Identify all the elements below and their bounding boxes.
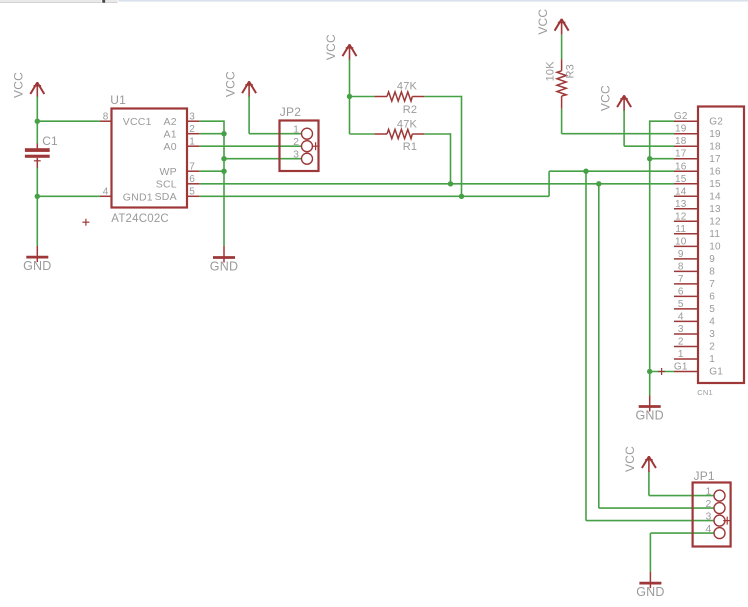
svg-text:10K: 10K bbox=[544, 61, 556, 82]
svg-text:G2: G2 bbox=[674, 111, 688, 122]
wire JP1 pin2 row bbox=[599, 507, 715, 509]
ground (under C1) bbox=[23, 246, 51, 273]
svg-text:WP: WP bbox=[159, 166, 176, 178]
power VCC symbol (R1/R2 pullups) bbox=[324, 34, 357, 60]
op-amp U1 AT24C02C EEPROM bbox=[100, 93, 200, 225]
wire JP1 pin3 row bbox=[586, 520, 714, 522]
svg-text:GND: GND bbox=[23, 259, 51, 273]
node G1 junction bbox=[647, 369, 652, 374]
svg-text:A2: A2 bbox=[164, 116, 177, 128]
svg-text:8: 8 bbox=[103, 112, 109, 123]
node R1-SCL junction bbox=[448, 181, 453, 186]
svg-text:1: 1 bbox=[189, 137, 195, 148]
power VCC symbol (JP1 pin1) bbox=[623, 446, 656, 472]
svg-text:6: 6 bbox=[189, 174, 195, 185]
svg-text:1: 1 bbox=[678, 349, 684, 360]
svg-text:A1: A1 bbox=[164, 129, 177, 141]
origin cross (U1 part origin) bbox=[82, 219, 89, 226]
svg-text:2: 2 bbox=[293, 136, 299, 148]
origin cross (CN1) bbox=[658, 368, 665, 375]
svg-text:4: 4 bbox=[705, 523, 711, 535]
node GND-C1-pin4 junction bbox=[35, 194, 40, 199]
wire U1 A1 to vertical bbox=[200, 133, 224, 135]
svg-text:18: 18 bbox=[709, 141, 721, 152]
svg-text:19: 19 bbox=[675, 124, 687, 135]
svg-text:4: 4 bbox=[678, 311, 684, 322]
svg-text:U1: U1 bbox=[110, 93, 126, 107]
wire R1 output down to SCL bbox=[450, 133, 452, 184]
svg-text:JP2: JP2 bbox=[280, 105, 301, 119]
svg-text:CN1: CN1 bbox=[697, 388, 713, 397]
node pin17 junction bbox=[647, 156, 652, 161]
svg-text:11: 11 bbox=[709, 229, 720, 240]
svg-text:GND1: GND1 bbox=[123, 191, 153, 203]
svg-text:JP1: JP1 bbox=[694, 469, 715, 483]
svg-text:2: 2 bbox=[705, 498, 711, 510]
wire C1 bottom to pin4 junction bbox=[36, 168, 38, 197]
svg-text:VCC: VCC bbox=[536, 9, 550, 35]
svg-text:6: 6 bbox=[709, 292, 715, 303]
svg-text:VCC: VCC bbox=[598, 85, 612, 111]
svg-text:VCC: VCC bbox=[623, 446, 637, 472]
svg-text:3: 3 bbox=[678, 324, 684, 335]
wire to CN1 pin18 bbox=[624, 145, 674, 147]
node JP1-SDA junction bbox=[583, 169, 588, 174]
svg-text:14: 14 bbox=[709, 192, 721, 203]
svg-text:3: 3 bbox=[705, 510, 711, 522]
svg-text:SDA: SDA bbox=[155, 191, 177, 203]
wire SDA to CN1 pin16 bbox=[549, 170, 674, 172]
svg-text:17: 17 bbox=[675, 149, 687, 160]
wire VCC down to R3 bbox=[561, 35, 563, 60]
svg-text:VCC1: VCC1 bbox=[123, 116, 152, 128]
svg-text:5: 5 bbox=[678, 299, 684, 310]
svg-text:A0: A0 bbox=[164, 141, 177, 153]
wire U1 A2 to vertical bbox=[200, 120, 224, 122]
svg-text:VCC: VCC bbox=[12, 72, 26, 98]
svg-text:13: 13 bbox=[675, 199, 687, 210]
svg-text:18: 18 bbox=[675, 136, 687, 147]
svg-text:6: 6 bbox=[678, 286, 684, 297]
svg-text:G1: G1 bbox=[709, 367, 723, 378]
svg-text:3: 3 bbox=[189, 112, 195, 123]
ground (A2/A1/WP net) bbox=[210, 246, 238, 273]
svg-text:4: 4 bbox=[709, 317, 715, 328]
svg-text:1: 1 bbox=[709, 354, 715, 365]
wire VCC down to R2 row bbox=[349, 59, 351, 96]
svg-text:10: 10 bbox=[709, 242, 721, 253]
svg-text:8: 8 bbox=[709, 267, 715, 278]
svg-text:G1: G1 bbox=[674, 362, 688, 373]
svg-text:1: 1 bbox=[705, 485, 711, 497]
wire R1 right to corner bbox=[424, 133, 450, 135]
power VCC symbol (CN1 pin18) bbox=[598, 85, 631, 111]
power VCC symbol (JP2 pin1) bbox=[223, 71, 256, 97]
svg-text:7: 7 bbox=[709, 279, 715, 290]
svg-text:16: 16 bbox=[709, 167, 721, 178]
wire to CN1 G1 pin bbox=[650, 371, 674, 373]
svg-text:3: 3 bbox=[709, 329, 715, 340]
svg-text:8: 8 bbox=[678, 261, 684, 272]
wire to CN1 pin17 bbox=[650, 158, 674, 160]
svg-text:47K: 47K bbox=[397, 118, 418, 130]
node JP2 pin3 junction bbox=[221, 156, 226, 161]
connector CN1 20-pin bbox=[674, 107, 744, 398]
wire SDA jog up bbox=[548, 171, 550, 196]
node R2-SDA junction bbox=[459, 194, 464, 199]
svg-text:4: 4 bbox=[103, 187, 109, 198]
wire G2 net vertical down to GND bbox=[649, 120, 651, 395]
svg-text:12: 12 bbox=[675, 211, 687, 222]
wire junction to U1 pin8 bbox=[37, 120, 100, 122]
top toolbar strip bbox=[0, 0, 748, 3]
ground (under CN1) bbox=[636, 395, 664, 422]
svg-text:7: 7 bbox=[189, 162, 195, 173]
node JP1-SCL junction bbox=[596, 181, 601, 186]
wire to JP2 pin1 bbox=[249, 133, 302, 135]
svg-text:5: 5 bbox=[189, 187, 195, 198]
svg-text:GND: GND bbox=[636, 408, 664, 422]
connector JP1 4-pin header bbox=[693, 469, 731, 547]
wire pin4 junction to GND bbox=[36, 196, 38, 246]
wire JP1 pin1 row bbox=[649, 495, 715, 497]
node A1 junction bbox=[221, 131, 226, 136]
wire JP1 pin4 row bbox=[650, 532, 714, 534]
resistor R2 47K bbox=[374, 81, 424, 116]
wire C1 top lead bbox=[36, 121, 38, 143]
wire U1 SDA horizontal bbox=[200, 195, 549, 197]
wire JP1 pin4 down to GND bbox=[649, 533, 651, 571]
svg-text:R1: R1 bbox=[403, 141, 417, 153]
wire VCC to C1/U1 pin8 junction bbox=[36, 97, 38, 122]
wire CN1 G2 pin to corner bbox=[650, 120, 674, 122]
svg-text:AT24C02C: AT24C02C bbox=[111, 213, 169, 225]
connector JP2 3-pin header bbox=[280, 105, 319, 171]
capacitor C1 bbox=[25, 134, 58, 168]
svg-text:1: 1 bbox=[293, 124, 299, 136]
svg-text:14: 14 bbox=[675, 186, 687, 197]
wire U1 SCL to CN1 pin15 bbox=[200, 183, 674, 185]
ground (under JP1) bbox=[636, 572, 664, 599]
svg-text:2: 2 bbox=[678, 337, 684, 348]
wire SCL-net drop to JP1 pin2 bbox=[598, 184, 600, 508]
svg-text:16: 16 bbox=[675, 161, 687, 172]
svg-text:12: 12 bbox=[709, 217, 721, 228]
wire SDA-net drop to JP1 pin3 bbox=[585, 171, 587, 520]
svg-text:2: 2 bbox=[709, 342, 715, 353]
svg-text:G2: G2 bbox=[709, 116, 723, 127]
resistor R1 47K bbox=[374, 118, 424, 153]
svg-text:VCC: VCC bbox=[324, 34, 338, 60]
wire R2 output down to SDA bbox=[461, 96, 463, 197]
svg-text:17: 17 bbox=[709, 154, 721, 165]
svg-text:11: 11 bbox=[675, 224, 686, 235]
svg-text:13: 13 bbox=[709, 204, 721, 215]
svg-text:R2: R2 bbox=[403, 104, 417, 116]
origin cross (JP1) bbox=[723, 517, 731, 525]
svg-text:GND: GND bbox=[636, 585, 664, 599]
wire vertical A2 net down to GND bbox=[223, 120, 225, 246]
wire junction to U1 pin4 bbox=[37, 195, 100, 197]
svg-text:7: 7 bbox=[678, 274, 684, 285]
svg-text:VCC: VCC bbox=[223, 71, 237, 97]
wire vertical to JP2 pin3 bbox=[224, 158, 302, 160]
svg-text:9: 9 bbox=[678, 249, 684, 260]
wire VCC junction down to R1 row bbox=[349, 97, 351, 135]
svg-text:R3: R3 bbox=[565, 64, 577, 78]
resistor R3 10K bbox=[544, 59, 576, 109]
svg-text:SCL: SCL bbox=[156, 179, 177, 191]
wire VCC down to JP1 pin1 bbox=[648, 472, 650, 496]
node WP junction bbox=[221, 169, 226, 174]
svg-text:3: 3 bbox=[293, 149, 299, 161]
node R1/R2 VCC junction bbox=[347, 94, 352, 99]
power VCC symbol (C1/U1 supply) bbox=[12, 72, 45, 98]
wire junction to R2 left lead bbox=[350, 96, 375, 98]
wire U1 A0 to JP2 pin2 bbox=[200, 145, 302, 147]
svg-text:15: 15 bbox=[709, 179, 721, 190]
origin cross (JP2) bbox=[312, 142, 320, 150]
wire R3 down to corner bbox=[561, 109, 563, 134]
svg-text:9: 9 bbox=[709, 254, 715, 265]
node VCC-C1-pin8 junction bbox=[35, 119, 40, 124]
svg-text:C1: C1 bbox=[42, 134, 58, 148]
svg-text:47K: 47K bbox=[397, 81, 418, 93]
wire R3 to CN1 pin19 bbox=[562, 133, 674, 135]
wire to R1 left lead bbox=[350, 133, 375, 135]
power VCC symbol (R3) bbox=[536, 9, 569, 35]
svg-text:15: 15 bbox=[675, 174, 687, 185]
wire U1 WP to vertical bbox=[200, 170, 224, 172]
wire VCC down to pin18 row bbox=[623, 110, 625, 146]
wire VCC down to JP2 pin1 row bbox=[248, 96, 250, 134]
svg-text:GND: GND bbox=[210, 259, 238, 273]
wire R2 right to corner bbox=[424, 96, 461, 98]
svg-text:10: 10 bbox=[675, 236, 687, 247]
svg-text:19: 19 bbox=[709, 129, 721, 140]
svg-text:5: 5 bbox=[709, 304, 715, 315]
svg-text:2: 2 bbox=[189, 124, 195, 135]
